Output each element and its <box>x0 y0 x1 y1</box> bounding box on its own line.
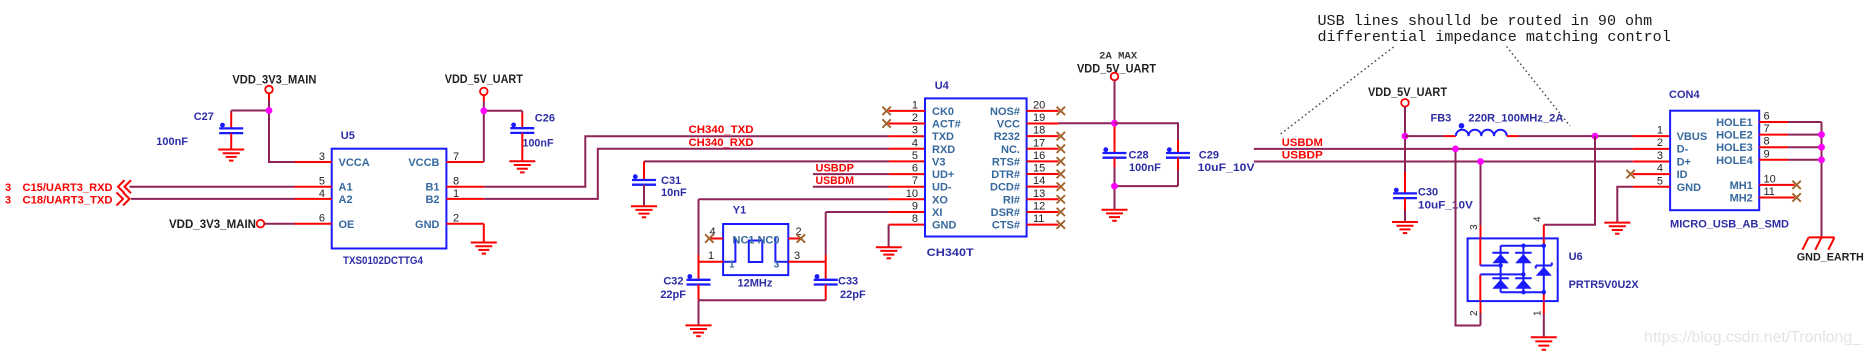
wire C27 branch <box>231 111 269 129</box>
svg-text:VCCA: VCCA <box>339 157 370 169</box>
junction VDD_5V_UART / FB3 <box>1402 133 1409 140</box>
USB-UART bridge U4 CH340T <box>889 80 1059 259</box>
svg-text:GND: GND <box>415 219 440 231</box>
svg-text:100nF: 100nF <box>1129 162 1161 174</box>
svg-text:C31: C31 <box>661 175 681 187</box>
capacitor C33 22pF <box>814 274 866 301</box>
svg-text:USBDP: USBDP <box>1282 150 1323 162</box>
ground under C27 <box>218 150 244 161</box>
svg-text:6: 6 <box>912 163 918 175</box>
wire net CH340_TXD (B1 to U4.TXD) <box>484 136 925 187</box>
ground U4 pin8 <box>876 247 902 258</box>
svg-text:CTS#: CTS# <box>992 220 1020 232</box>
junction VDD_3V3_MAIN / C27 <box>266 107 273 114</box>
junction HOLE2 <box>1818 131 1825 138</box>
svg-text:6: 6 <box>1764 111 1770 123</box>
wire U6 pin1 to ground <box>1543 301 1545 337</box>
off-page connector C15/UART3_RXD <box>5 180 131 194</box>
svg-text:5: 5 <box>912 150 918 162</box>
svg-text:C29: C29 <box>1199 150 1219 162</box>
wire C28/C29 bottom rail <box>1115 186 1179 210</box>
svg-text:16: 16 <box>1033 150 1045 162</box>
diode D-left-bottom in U6 <box>1492 278 1509 289</box>
svg-text:8: 8 <box>453 176 459 188</box>
ferrite bead FB3 220R_100MHz_2A <box>1405 113 1595 137</box>
svg-text:MICRO_USB_AB_SMD: MICRO_USB_AB_SMD <box>1670 219 1789 231</box>
svg-text:10uF_10V: 10uF_10V <box>1418 200 1474 212</box>
wire C26 branch <box>484 111 523 128</box>
svg-text:D+: D+ <box>1677 156 1691 168</box>
junction HOLE4 <box>1818 156 1825 163</box>
no-connect X on U4 pin2 <box>882 119 890 127</box>
svg-text:U5: U5 <box>341 130 355 142</box>
svg-text:ACT#: ACT# <box>932 119 961 131</box>
svg-text:XI: XI <box>932 207 942 219</box>
wire OE to VDD_3V3_MAIN <box>264 223 294 225</box>
ground under C31 <box>631 206 657 217</box>
svg-text:3: 3 <box>1469 224 1480 230</box>
wire VDD_5V_UART rail to VCCB <box>483 95 485 162</box>
svg-text:C26: C26 <box>535 113 555 125</box>
svg-text:HOLE4: HOLE4 <box>1716 155 1754 167</box>
net label CH340_TXD <box>689 124 754 136</box>
svg-text:GND_EARTH: GND_EARTH <box>1797 252 1864 264</box>
svg-text:TXS0102DCTTG4: TXS0102DCTTG4 <box>343 255 424 267</box>
svg-text:1: 1 <box>453 188 459 200</box>
no-connect X on Y1 pin2 <box>797 234 805 242</box>
svg-text:22pF: 22pF <box>660 289 686 301</box>
junction USBDP / U6 pin3 <box>1477 158 1484 165</box>
svg-text:1: 1 <box>912 99 918 111</box>
ground U5 pin2 <box>471 243 497 254</box>
svg-text:3: 3 <box>5 194 11 206</box>
svg-text:20: 20 <box>1033 99 1045 111</box>
svg-text:https://blog.csdn.net/Tronlong: https://blog.csdn.net/Tronlong_ <box>1644 329 1861 346</box>
svg-text:USBDM: USBDM <box>1282 137 1323 149</box>
svg-text:3: 3 <box>5 182 11 194</box>
svg-text:Y1: Y1 <box>733 205 746 217</box>
capacitor C30 10uF_10V <box>1393 187 1474 223</box>
no-connect X on CON4 MH2 <box>1792 193 1800 201</box>
svg-text:VDD_3V3_MAIN: VDD_3V3_MAIN <box>169 219 256 231</box>
wire A1 net C15/UART3_RXD <box>130 186 295 188</box>
svg-text:9: 9 <box>1764 148 1770 160</box>
no-connect X marks on U4 right pins <box>1057 107 1065 229</box>
svg-text:TXD: TXD <box>932 131 954 143</box>
svg-text:HOLE1: HOLE1 <box>1716 117 1753 129</box>
ground under crystal caps <box>686 325 712 336</box>
svg-text:100nF: 100nF <box>523 138 554 150</box>
diode D-mid-top in U6 <box>1515 253 1532 263</box>
wire VDD_5V_UART down to C28 <box>1114 80 1116 153</box>
wire U4.V3 to C31 <box>644 161 925 180</box>
svg-text:220R_100MHz_2A: 220R_100MHz_2A <box>1468 113 1563 125</box>
wire net USBDP to CON4.D+ <box>1254 161 1670 163</box>
svg-text:C30: C30 <box>1418 187 1438 199</box>
svg-text:USBDM: USBDM <box>816 175 855 187</box>
crystal Y1 12MHz <box>699 205 826 290</box>
svg-text:4: 4 <box>912 137 918 149</box>
off-page connector C18/UART3_TXD <box>5 192 130 206</box>
wire U4.GND pin8 <box>889 225 925 248</box>
svg-text:A1: A1 <box>339 182 353 194</box>
svg-text:CH340_RXD: CH340_RXD <box>689 137 754 149</box>
wire net USBDP stub (U4.UD+) <box>813 173 925 175</box>
svg-text:VDD_3V3_MAIN: VDD_3V3_MAIN <box>232 75 316 87</box>
svg-text:15: 15 <box>1033 163 1045 175</box>
svg-text:R232: R232 <box>994 131 1020 143</box>
svg-text:MH2: MH2 <box>1730 193 1753 205</box>
wire net USBDM to CON4.D- <box>1254 148 1670 150</box>
svg-text:1: 1 <box>1657 125 1663 137</box>
note: USB routing requirement <box>1318 13 1671 46</box>
svg-text:NC.: NC. <box>1001 144 1020 156</box>
watermark <box>1644 329 1861 346</box>
svg-text:C18/UART3_TXD: C18/UART3_TXD <box>23 194 113 206</box>
wire U4.XI to Y1 pin3 / C33 <box>826 212 925 280</box>
svg-text:7: 7 <box>912 175 918 187</box>
svg-text:DSR#: DSR# <box>991 207 1020 219</box>
no-connect X on Y1 pin4 <box>705 234 713 242</box>
svg-text:V3: V3 <box>932 156 945 168</box>
svg-text:13: 13 <box>1033 188 1045 200</box>
svg-text:B1: B1 <box>425 182 439 194</box>
power VDD_3V3_MAIN (U5 VCCA) <box>232 75 316 94</box>
zener diode in U6 <box>1536 263 1552 276</box>
svg-text:3: 3 <box>1657 150 1663 162</box>
svg-text:2A MAX: 2A MAX <box>1099 52 1137 63</box>
ground U6 pin1 <box>1531 337 1557 350</box>
net label CH340_RXD <box>689 137 754 149</box>
ESD protection U6 PRTR5V0U2X <box>1468 238 1640 301</box>
svg-text:DCD#: DCD# <box>990 182 1020 194</box>
svg-text:RI#: RI# <box>1003 194 1020 206</box>
wire U4.XO to Y1 pin1 / C32 <box>699 199 926 279</box>
wire VDD_3V3_MAIN rail to VCCA <box>269 93 295 162</box>
svg-text:C15/UART3_RXD: C15/UART3_RXD <box>23 182 113 194</box>
svg-text:NC1: NC1 <box>733 235 755 247</box>
svg-text:VCCB: VCCB <box>408 157 439 169</box>
svg-text:DTR#: DTR# <box>991 169 1020 181</box>
no-connect X on U4 pin1 <box>882 107 890 115</box>
wire USBDP to U6 pin3 <box>1480 162 1482 239</box>
net label USBDM (right) <box>1282 137 1323 149</box>
svg-text:2: 2 <box>1657 137 1663 149</box>
leader line to FB3 output <box>1507 47 1571 127</box>
svg-text:UD+: UD+ <box>932 169 954 181</box>
svg-text:C28: C28 <box>1129 150 1149 162</box>
svg-text:U6: U6 <box>1569 251 1583 263</box>
svg-text:3: 3 <box>912 125 918 137</box>
wire U5 GND pin2 <box>483 224 485 243</box>
svg-text:ID: ID <box>1677 169 1688 181</box>
svg-text:2: 2 <box>453 213 459 225</box>
svg-text:differential impedance matchin: differential impedance matching control <box>1318 29 1671 46</box>
power VDD_5V_UART (FB3) <box>1368 87 1447 107</box>
wire VDD_5V_UART to FB3 / C30 <box>1404 107 1406 194</box>
svg-text:HOLE3: HOLE3 <box>1716 142 1753 154</box>
svg-text:10: 10 <box>1764 173 1776 185</box>
svg-text:6: 6 <box>319 213 325 225</box>
svg-text:14: 14 <box>1033 175 1045 187</box>
no-connect X on CON4 MH1 <box>1792 181 1800 189</box>
svg-text:NC0: NC0 <box>757 235 779 247</box>
svg-text:GND: GND <box>1677 182 1702 194</box>
svg-text:CON4: CON4 <box>1669 89 1700 101</box>
svg-text:CH340_TXD: CH340_TXD <box>689 124 754 136</box>
ground CON4 pin5 <box>1604 223 1630 234</box>
svg-text:9: 9 <box>912 200 918 212</box>
svg-text:USBDP: USBDP <box>816 162 855 174</box>
diode D-mid-bottom in U6 <box>1515 278 1532 289</box>
wire CON4 GND pin5 to ground <box>1617 187 1632 223</box>
leader line to USBDM <box>1279 47 1394 136</box>
connector CON4 MICRO_USB_AB_SMD <box>1633 89 1795 231</box>
svg-text:D-: D- <box>1677 144 1689 156</box>
svg-text:VDD_5V_UART: VDD_5V_UART <box>1368 87 1447 99</box>
svg-text:XO: XO <box>932 194 948 206</box>
ground under C30 <box>1392 222 1418 233</box>
capacitor C26 100nF <box>510 113 555 162</box>
svg-text:VDD_5V_UART: VDD_5V_UART <box>445 74 523 86</box>
svg-text:1: 1 <box>729 260 735 271</box>
svg-text:4: 4 <box>319 188 325 200</box>
ground under C28 <box>1102 210 1128 221</box>
svg-text:RXD: RXD <box>932 144 955 156</box>
capacitor C28 100nF <box>1103 147 1162 186</box>
svg-text:2: 2 <box>1469 310 1480 316</box>
junction VBUS / U6 pin4 <box>1592 133 1599 140</box>
svg-text:VBUS: VBUS <box>1677 131 1708 143</box>
net label USBDM <box>816 175 855 187</box>
svg-text:GND: GND <box>932 220 957 232</box>
capacitor C31 10nF <box>632 174 687 206</box>
svg-text:CH340T: CH340T <box>927 247 974 259</box>
svg-text:7: 7 <box>1764 123 1770 135</box>
net label USBDP (right) <box>1282 150 1323 162</box>
svg-text:8: 8 <box>1764 136 1770 148</box>
svg-text:10uF_10V: 10uF_10V <box>1198 162 1256 174</box>
svg-text:12: 12 <box>1033 200 1045 212</box>
junction VDD_5V_UART / VCC rail <box>1111 120 1118 127</box>
power VDD_3V3_MAIN (U5 OE) <box>169 219 264 231</box>
svg-text:FB3: FB3 <box>1431 113 1452 125</box>
U6 pin numbers <box>1469 216 1544 316</box>
earth ground GND_EARTH <box>1797 237 1864 263</box>
svg-text:NOS#: NOS# <box>990 106 1020 118</box>
svg-text:USB lines shoulld be routed in: USB lines shoulld be routed in 90 ohm <box>1318 13 1653 30</box>
junction C28 bottom <box>1111 183 1118 190</box>
svg-text:1: 1 <box>1533 310 1544 316</box>
svg-text:B2: B2 <box>425 194 439 206</box>
svg-text:C27: C27 <box>194 111 214 123</box>
svg-text:22pF: 22pF <box>840 289 866 301</box>
svg-text:MH1: MH1 <box>1730 180 1753 192</box>
junction VDD_5V_UART / C26 <box>480 107 487 114</box>
svg-text:12MHz: 12MHz <box>738 278 773 290</box>
wire U4.VCC to C28 rail <box>1059 122 1115 124</box>
wire VBUS to U6 pin4 <box>1544 136 1595 238</box>
svg-text:C33: C33 <box>838 276 858 288</box>
svg-text:C32: C32 <box>663 276 683 288</box>
node dots in U6 <box>1498 244 1546 295</box>
wire USBDM to U6 pin2 <box>1456 149 1481 326</box>
svg-text:PRTR5V0U2X: PRTR5V0U2X <box>1569 279 1640 291</box>
wire net CH340_RXD (B2 to U4.RXD) <box>484 149 925 199</box>
svg-text:5: 5 <box>1657 175 1663 187</box>
wire HOLE pins to GND_EARTH <box>1788 122 1822 237</box>
svg-text:3: 3 <box>319 151 325 163</box>
svg-text:11: 11 <box>1033 213 1044 225</box>
svg-text:7: 7 <box>453 151 459 163</box>
wire net USBDM stub (U4.UD-) <box>813 186 925 188</box>
svg-text:1: 1 <box>708 250 714 262</box>
svg-text:17: 17 <box>1033 137 1045 149</box>
power VDD_5V_UART (U5 VCCB) <box>445 74 523 95</box>
wire VBUS to CON4 pin1 <box>1595 135 1670 137</box>
svg-text:OE: OE <box>339 219 355 231</box>
ground under C26 <box>509 161 535 172</box>
junction USBDM / U6 pin2 <box>1452 146 1459 153</box>
svg-text:CK0: CK0 <box>932 106 954 118</box>
svg-text:VCC: VCC <box>997 119 1020 131</box>
junction HOLE3 <box>1818 144 1825 151</box>
svg-text:19: 19 <box>1033 112 1045 124</box>
svg-text:U4: U4 <box>935 80 950 92</box>
capacitor C32 22pF <box>660 274 710 301</box>
power VDD_5V_UART (C28 rail) <box>1077 52 1156 81</box>
svg-text:2: 2 <box>912 112 918 124</box>
svg-text:18: 18 <box>1033 125 1045 137</box>
wire rail to C29 <box>1115 123 1179 153</box>
svg-text:11: 11 <box>1764 186 1775 198</box>
svg-text:10nF: 10nF <box>661 187 687 199</box>
svg-text:3: 3 <box>774 260 780 271</box>
svg-text:4: 4 <box>1533 216 1544 222</box>
wire C32/C33 bottom rail <box>699 300 826 325</box>
svg-text:5: 5 <box>319 176 325 188</box>
svg-text:A2: A2 <box>339 194 353 206</box>
svg-text:HOLE2: HOLE2 <box>1716 130 1753 142</box>
svg-text:UD-: UD- <box>932 182 952 194</box>
diode D-left-top in U6 <box>1492 253 1509 263</box>
capacitor C29 10uF_10V <box>1166 147 1255 186</box>
svg-text:3: 3 <box>794 250 800 262</box>
net label USBDP <box>816 162 855 174</box>
svg-text:8: 8 <box>912 213 918 225</box>
svg-text:10: 10 <box>906 188 918 200</box>
svg-text:100nF: 100nF <box>156 136 188 148</box>
wire A2 net C18/UART3_TXD <box>131 198 295 200</box>
capacitor C27 100nF <box>156 111 243 150</box>
no-connect X on CON4 ID pin <box>1626 170 1634 178</box>
svg-text:RTS#: RTS# <box>992 156 1020 168</box>
svg-text:4: 4 <box>1657 163 1663 175</box>
level shifter U5 TXS0102DCTTG4 <box>295 130 484 267</box>
